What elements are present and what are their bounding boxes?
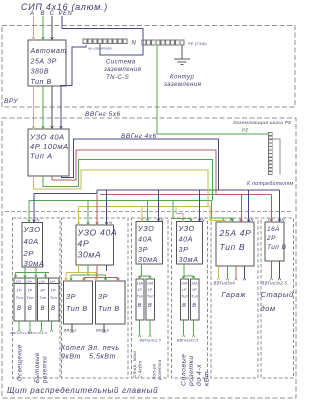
- svg-text:1Р: 1Р: [27, 289, 32, 293]
- wire N to РУ: [61, 45, 86, 129]
- wire arrows into УЗО4: [182, 219, 201, 222]
- wire C to РУ: [51, 86, 53, 129]
- svg-text:РЕ (ГЗШ): РЕ (ГЗШ): [188, 42, 207, 46]
- wires УЗО2 to heaters: [66, 265, 118, 281]
- wire B to РУ: [42, 86, 44, 129]
- wires group3 outputs: [139, 320, 141, 334]
- wire arrows into QF6: [270, 219, 281, 222]
- svg-text:В: В: [51, 306, 55, 312]
- svg-text:Система: Система: [106, 60, 136, 66]
- breaker QF4.2 16А 1Р Тип В: [190, 279, 199, 320]
- wire A bus: [34, 170, 209, 206]
- group box 5 (dashed): [211, 218, 258, 378]
- svg-text:Котел Эл. печь: Котел Эл. печь: [61, 345, 120, 352]
- wire C drop to QF6: [271, 195, 273, 223]
- wire B bus lower: [29, 200, 211, 202]
- svg-text:розетки: розетки: [188, 355, 195, 387]
- RCD main УЗО 40А 4Р 100мА Тип А: [28, 129, 69, 176]
- wire arrows into group1 breakers: [14, 275, 47, 278]
- wire A drop to QF5: [210, 206, 225, 222]
- svg-text:ВВГнг: ВВГнг: [96, 328, 109, 333]
- svg-text:16А: 16А: [137, 282, 143, 286]
- svg-text:Тип: Тип: [191, 295, 198, 299]
- svg-text:3Р: 3Р: [66, 292, 76, 301]
- bus PE vertical: [269, 133, 273, 175]
- wire arrows into group3 breakers: [138, 276, 151, 279]
- wire B drop to QF5: [211, 201, 232, 222]
- bus N (on insulators): [83, 39, 137, 51]
- wires QF6 outputs: [271, 261, 273, 278]
- wire N drop to QF5: [248, 190, 250, 222]
- wire A drop to УЗО2: [78, 206, 80, 225]
- wires group4 outputs: [183, 320, 185, 334]
- wire PEN input: [62, 16, 143, 55]
- group box 4 (dashed): [172, 218, 208, 378]
- svg-text:10А: 10А: [26, 280, 32, 284]
- svg-text:25А 4Р: 25А 4Р: [219, 228, 252, 238]
- wire A drop to УЗО4: [176, 206, 183, 221]
- svg-text:В: В: [17, 306, 21, 312]
- wire arrows group outputs: [18, 278, 281, 337]
- svg-text:1Р: 1Р: [182, 288, 187, 292]
- svg-text:В: В: [148, 303, 152, 309]
- note Система заземления TN-C-S: [103, 60, 142, 82]
- svg-text:40А: 40А: [24, 237, 39, 246]
- wire N bus: [62, 139, 219, 190]
- wire arrows into УЗО2: [77, 222, 108, 225]
- wire B drop to УЗО4: [173, 201, 191, 222]
- svg-text:PEN: PEN: [59, 11, 73, 17]
- wires QF5 outputs: [219, 266, 245, 278]
- svg-text:УЗО 40А: УЗО 40А: [77, 228, 118, 238]
- svg-text:Тип: Тип: [27, 296, 35, 300]
- group box 1 (dashed): [13, 218, 61, 378]
- svg-text:4Р 100мА: 4Р 100мА: [30, 142, 69, 151]
- svg-text:ВВГнг 5х6: ВВГнг 5х6: [85, 111, 121, 118]
- svg-text:Тип: Тип: [137, 295, 144, 299]
- svg-text:1Р: 1Р: [51, 289, 56, 293]
- svg-text:1Р: 1Р: [192, 288, 197, 292]
- svg-text:30мА: 30мА: [78, 250, 102, 260]
- svg-text:16А: 16А: [191, 282, 197, 286]
- wire N bus lower: [97, 189, 280, 191]
- group box 2 (dashed): [62, 218, 129, 378]
- svg-text:30мА: 30мА: [138, 255, 158, 264]
- svg-text:16А: 16А: [50, 280, 56, 284]
- svg-text:30мА: 30мА: [24, 259, 45, 268]
- svg-text:40А: 40А: [138, 235, 153, 244]
- breaker QF3.1 16А 1Р Тип В: [136, 279, 144, 320]
- jumper N-PE (PEN to PE strip): [142, 40, 144, 45]
- svg-text:К потребителям: К потребителям: [247, 181, 294, 187]
- wire arrows into group4 breakers: [182, 276, 195, 279]
- svg-text:Тип В: Тип В: [98, 304, 120, 313]
- svg-text:16А: 16А: [39, 280, 45, 284]
- svg-text:Тип В: Тип В: [66, 304, 88, 313]
- svg-text:ВВГнг3х2,5: ВВГнг3х2,5: [262, 281, 288, 286]
- svg-text:Тип В: Тип В: [31, 79, 52, 86]
- svg-text:Бытовые: Бытовые: [35, 352, 41, 383]
- svg-text:Силовые: Силовые: [181, 354, 188, 386]
- svg-text:кВт: кВт: [204, 371, 211, 386]
- svg-text:ВРУ: ВРУ: [4, 98, 18, 105]
- svg-text:Щит распределительный главный: Щит распределительный главный: [7, 386, 158, 395]
- node labels А В С PEN: [29, 11, 72, 17]
- svg-text:В: В: [28, 306, 32, 312]
- svg-text:на изоляторе: на изоляторе: [88, 47, 112, 51]
- svg-text:заземления: заземления: [163, 82, 202, 88]
- breaker QF4.1 16А 1Р Тип В: [180, 279, 188, 320]
- DIN rail (dashed): [5, 211, 293, 213]
- wire N drop to УЗО1: [34, 190, 97, 223]
- svg-text:розетка: розетка: [157, 359, 162, 380]
- wire arrows into QF Автомат: [32, 37, 53, 40]
- svg-text:УЗО: УЗО: [178, 224, 195, 233]
- wire phase B input: [42, 16, 44, 40]
- wire A drop to УЗО3: [141, 206, 143, 221]
- svg-text:9кВт: 9кВт: [61, 354, 81, 361]
- svg-text:В: В: [41, 306, 45, 312]
- breaker QF6 16А 2Р Тип В: [265, 222, 287, 261]
- svg-text:Тип В: Тип В: [220, 242, 246, 252]
- breaker QF Автомат 25А 3Р 380В Тип В: [28, 40, 67, 86]
- svg-text:УЗО: УЗО: [23, 225, 41, 234]
- wire phase C input: [51, 16, 53, 40]
- bus PE ГЗШ: [142, 40, 208, 46]
- enclosure Щит распределительный (dashed): [2, 118, 296, 398]
- svg-text:Старый: Старый: [261, 290, 294, 299]
- svg-text:В: В: [192, 303, 196, 309]
- svg-text:1Р: 1Р: [40, 289, 45, 293]
- wire B drop to УЗО3: [147, 201, 149, 222]
- svg-text:TN-C-S: TN-C-S: [106, 75, 129, 81]
- svg-text:С: С: [268, 217, 271, 222]
- svg-text:30мА: 30мА: [179, 255, 199, 264]
- wire C bus lower: [100, 194, 272, 196]
- svg-text:10А: 10А: [15, 280, 21, 284]
- svg-text:заземления: заземления: [103, 67, 142, 73]
- svg-text:ВВГнг3х2,5: ВВГнг3х2,5: [140, 339, 161, 343]
- wire arrows into УЗО3: [141, 219, 160, 222]
- svg-text:2Р: 2Р: [23, 249, 35, 258]
- svg-text:В: В: [138, 303, 142, 309]
- svg-text:N: N: [251, 217, 254, 222]
- svg-text:5,5кВт: 5,5кВт: [89, 354, 116, 361]
- breaker QF5 25А 4Р Тип В: [216, 222, 254, 266]
- wires УЗО3 to breakers: [140, 264, 151, 279]
- svg-text:4Р: 4Р: [78, 239, 90, 249]
- svg-text:N: N: [37, 217, 40, 222]
- wire C drop to QF5: [240, 195, 242, 223]
- wire PE from ГЗШ: [157, 46, 269, 135]
- svg-text:В: В: [182, 303, 186, 309]
- svg-text:16А: 16А: [147, 282, 153, 286]
- svg-text:1Р: 1Р: [137, 288, 142, 292]
- wire A to РУ: [33, 86, 35, 129]
- svg-text:розетки: розетки: [43, 356, 49, 384]
- svg-text:Освещение: Освещение: [18, 344, 24, 381]
- pin labels С N QF6: [268, 217, 285, 222]
- svg-text:Гараж: Гараж: [222, 290, 247, 299]
- wire N drop to QF6: [279, 190, 281, 222]
- svg-text:Тип: Тип: [147, 295, 154, 299]
- breaker QF3.2 16А 1Р Тип В: [146, 279, 155, 320]
- wires group2 outputs: [71, 324, 73, 330]
- svg-text:Тип: Тип: [39, 296, 47, 300]
- svg-text:до 4-х: до 4-х: [195, 364, 203, 386]
- wire B drop to УЗО2: [87, 201, 89, 225]
- svg-text:25А 3Р: 25А 3Р: [30, 58, 57, 65]
- wire C drop to УЗО2: [96, 195, 98, 226]
- svg-text:УЗО 40А: УЗО 40А: [29, 133, 65, 142]
- svg-text:ВВГнг5х4: ВВГнг5х4: [214, 281, 236, 286]
- svg-text:N: N: [132, 41, 137, 47]
- svg-text:Заземляющая шина PE: Заземляющая шина PE: [233, 120, 292, 125]
- svg-text:2Р: 2Р: [266, 235, 276, 242]
- wire УЗО1 to group1 breakers: [16, 267, 50, 278]
- svg-text:40А: 40А: [179, 235, 194, 244]
- wires group1 outputs: [19, 321, 52, 329]
- svg-text:1Р: 1Р: [17, 289, 22, 293]
- breaker QF2.1 3Р Тип В: [64, 281, 93, 324]
- svg-text:N: N: [109, 220, 112, 225]
- breakers QF1.1 QF1.2 (10А 1Р Тип В): [14, 278, 36, 321]
- RCD УЗО3 40А 3Р 30мА: [136, 222, 163, 265]
- breaker QF2.2 3Р Тип В: [96, 281, 126, 324]
- svg-text:ВВГнг3х2,5: ВВГнг3х2,5: [177, 339, 198, 343]
- wire PE to consumers: [272, 139, 280, 175]
- svg-text:Тип А: Тип А: [30, 152, 53, 161]
- svg-text:Автомат: Автомат: [30, 48, 67, 55]
- wire A bus lower: [79, 205, 211, 207]
- wire arrows into QF5: [224, 219, 251, 222]
- wire N drop to УЗО2: [106, 190, 108, 225]
- pin labels А В С N QF5: [221, 217, 254, 222]
- svg-text:Контур: Контур: [170, 75, 194, 81]
- svg-text:N: N: [282, 217, 285, 222]
- wire arrows into group2 breakers: [65, 278, 120, 281]
- svg-text:ВВГнг: ВВГнг: [64, 328, 77, 333]
- ground electrode (контур заземления): [163, 46, 202, 89]
- RCD УЗО2 40А 4Р 30мА: [76, 225, 117, 265]
- svg-text:УЗО: УЗО: [137, 224, 154, 233]
- group box 6 (dashed): [261, 218, 294, 378]
- svg-text:380В: 380В: [31, 69, 50, 76]
- wire B drop to УЗО1: [28, 201, 30, 222]
- svg-text:Тип В: Тип В: [267, 244, 287, 251]
- wire N drop to УЗО3: [158, 190, 160, 222]
- wire arrows into УЗО1: [28, 220, 36, 223]
- svg-text:Тип: Тип: [16, 296, 24, 300]
- wire phase A input: [33, 16, 35, 40]
- svg-text:Тип: Тип: [50, 296, 58, 300]
- wires УЗО4 to breakers: [184, 264, 194, 279]
- wire arrows into УЗО main: [32, 126, 62, 129]
- RCD УЗО1 40А 2Р 30мА: [22, 223, 45, 269]
- wire N drop to УЗО4: [199, 190, 201, 222]
- svg-text:Стир. маш: Стир. маш: [132, 351, 137, 378]
- enclosure ВРУ (dashed): [2, 26, 295, 108]
- svg-text:2,4кВт: 2,4кВт: [137, 361, 142, 379]
- wire B bus: [43, 160, 213, 201]
- svg-text:дом: дом: [261, 304, 276, 313]
- breakers QF1.3 QF1.4 (16А 1Р Тип В): [38, 278, 60, 321]
- svg-text:16А: 16А: [181, 282, 187, 286]
- svg-text:3Р: 3Р: [179, 245, 189, 254]
- svg-text:3Р: 3Р: [98, 292, 108, 301]
- svg-text:Хол-ок: Хол-ок: [151, 363, 156, 381]
- group box 3 (dashed): [132, 218, 169, 378]
- RCD УЗО4 40А 3Р 30мА: [177, 222, 203, 265]
- wire C bus: [52, 150, 216, 195]
- svg-text:1Р: 1Р: [148, 288, 153, 292]
- svg-text:16А: 16А: [267, 226, 280, 233]
- svg-text:Тип: Тип: [181, 295, 188, 299]
- svg-text:РЕ: РЕ: [242, 128, 249, 133]
- svg-text:3Р: 3Р: [138, 245, 148, 254]
